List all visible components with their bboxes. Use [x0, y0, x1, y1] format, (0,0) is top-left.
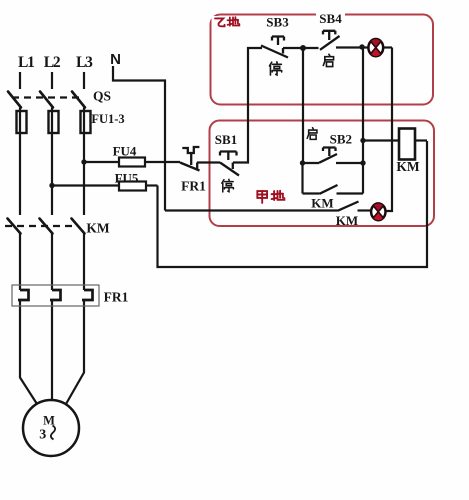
svg-text:FU1-3: FU1-3: [91, 112, 124, 126]
svg-text:FU5: FU5: [115, 171, 139, 186]
svg-text:SB2: SB2: [330, 132, 352, 147]
svg-text:N: N: [110, 51, 121, 68]
svg-text:SB3: SB3: [266, 15, 289, 30]
svg-text:KM: KM: [396, 159, 420, 174]
svg-text:SB4: SB4: [319, 11, 342, 26]
svg-text:FU4: FU4: [113, 144, 137, 159]
svg-text:L2: L2: [44, 54, 61, 71]
svg-text:QS: QS: [93, 89, 111, 104]
svg-text:KM: KM: [311, 196, 333, 211]
svg-text:L1: L1: [18, 54, 34, 71]
svg-text:L3: L3: [76, 54, 93, 71]
svg-text:FR1: FR1: [104, 290, 129, 305]
svg-text:KM: KM: [336, 213, 358, 228]
svg-text:FR1: FR1: [181, 179, 206, 194]
svg-text:KM: KM: [86, 221, 110, 236]
svg-text:3: 3: [39, 428, 46, 443]
svg-text:SB1: SB1: [215, 132, 237, 147]
